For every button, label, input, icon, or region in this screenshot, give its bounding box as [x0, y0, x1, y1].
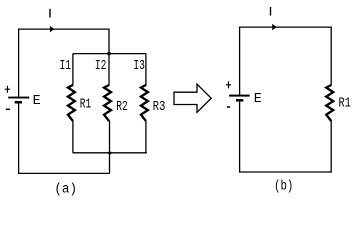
- svg-text:I1: I1: [60, 58, 72, 74]
- svg-text:E: E: [254, 92, 262, 107]
- svg-text:R3: R3: [153, 100, 166, 115]
- svg-text:(a): (a): [54, 183, 77, 198]
- svg-text:R2: R2: [116, 100, 128, 115]
- svg-text:R1: R1: [80, 97, 92, 112]
- svg-text:E: E: [33, 94, 41, 109]
- svg-text:I2: I2: [95, 58, 107, 74]
- svg-text:R1: R1: [339, 96, 351, 111]
- svg-text:(b): (b): [274, 179, 293, 194]
- svg-text:I3: I3: [133, 58, 145, 74]
